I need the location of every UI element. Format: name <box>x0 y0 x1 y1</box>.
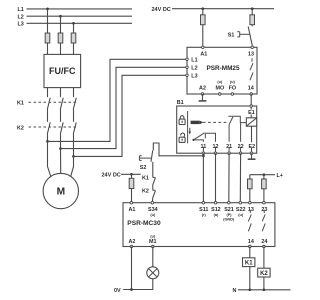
ground at A2 <box>199 94 207 101</box>
ground at E2 <box>248 153 256 159</box>
switch S1 <box>228 27 253 46</box>
wire FU/FC out phase3 <box>73 88 75 98</box>
svg-text:K2: K2 <box>142 189 149 195</box>
wire 24V to fuse F4 <box>202 9 204 15</box>
pin 24 PSR-MC30 <box>263 245 266 248</box>
pin 22 B1 <box>237 142 244 155</box>
mechanical linkage dashed B1 <box>203 121 228 123</box>
svg-text:N: N <box>233 288 237 294</box>
contactor coil K2 <box>258 268 270 277</box>
wire sense phase1 to PSR-MM25 L1 <box>48 59 186 141</box>
svg-text:A1: A1 <box>200 52 207 58</box>
pin 11 B1 <box>200 142 207 155</box>
wire 12 to S12 <box>215 153 217 203</box>
contact K2 aux <box>142 189 156 199</box>
contact K1 aux <box>142 176 156 186</box>
pin A1 PSR-MC30 <box>130 201 133 204</box>
svg-text:(P): (P) <box>226 213 232 217</box>
padlock open icon <box>179 133 185 142</box>
svg-text:12: 12 <box>213 144 219 150</box>
lamp H1 <box>147 267 159 279</box>
pin A2 PSR-MM25 <box>201 93 204 96</box>
svg-text:24V DC: 24V DC <box>102 173 121 179</box>
svg-text:11: 11 <box>201 144 207 150</box>
pin S11 PSR-MC30 <box>202 201 205 204</box>
wire K1 to K2 phase2 <box>60 110 62 122</box>
actuator tongue B1 <box>191 121 204 125</box>
wire 14 to K1 coil <box>249 247 251 258</box>
svg-text:L1: L1 <box>191 57 197 63</box>
wire motor lead phase1 <box>48 141 52 177</box>
drive FU/FC <box>44 54 81 87</box>
svg-text:MO: MO <box>215 86 224 92</box>
wire FU/FC out phase1 <box>47 88 49 98</box>
pin 13 PSR-MC30 <box>249 201 252 204</box>
svg-text:A2: A2 <box>199 86 206 92</box>
pin E2 B1 <box>250 152 253 155</box>
svg-text:(GND): (GND) <box>223 218 235 222</box>
wire S2 to K1 aux <box>152 162 154 178</box>
pin S12 PSR-MC30 <box>214 201 217 204</box>
motor M <box>43 173 78 208</box>
fuse F2 phase2 <box>58 33 63 43</box>
pin L1 PSR-MM25 <box>186 58 189 61</box>
wire sense phase2 to PSR-MM25 L2 <box>61 67 186 148</box>
fuse F8 <box>262 179 267 189</box>
wire K1 to K2 phase1 <box>47 110 49 122</box>
svg-text:FU/FC: FU/FC <box>49 66 76 76</box>
wire 21 to S21 <box>228 153 230 203</box>
wire fuse3 to FU/FC <box>73 43 75 54</box>
actuator down arrow B1 <box>189 128 192 135</box>
svg-text:M: M <box>57 187 66 198</box>
node L1 tap <box>46 8 49 11</box>
wire 14 to E1 <box>250 94 252 106</box>
svg-text:24V DC: 24V DC <box>152 7 171 13</box>
padlock closed icon <box>179 116 185 125</box>
svg-text:(u): (u) <box>230 80 236 84</box>
wire lamp to 0V <box>152 279 154 290</box>
svg-text:L3: L3 <box>18 21 24 27</box>
svg-text:14: 14 <box>248 86 254 92</box>
wire 24 to K2 coil <box>263 247 265 269</box>
svg-text:(u): (u) <box>238 213 244 217</box>
wire 24V to fuse F5 <box>251 9 253 15</box>
svg-text:S2: S2 <box>140 165 147 171</box>
svg-text:L+: L+ <box>277 173 283 179</box>
svg-text:PSR-MC30: PSR-MC30 <box>127 220 161 227</box>
pin 23 PSR-MC30 <box>263 201 266 204</box>
rail 0V <box>114 288 153 294</box>
svg-text:S1: S1 <box>228 33 235 39</box>
node 24V A1 tap <box>201 7 204 10</box>
pin M1 PSR-MC30 <box>152 245 155 248</box>
svg-text:PSR-MM25: PSR-MM25 <box>206 65 239 72</box>
fuse F6 <box>129 178 134 188</box>
contactor coil K1 <box>243 258 255 267</box>
wire motor lead phase3 <box>70 156 73 177</box>
node L2 tap <box>59 15 62 18</box>
rail N <box>233 288 291 294</box>
contact 13-14 inside PSR-MC30 <box>248 210 251 232</box>
wire fuse1 to FU/FC <box>47 43 49 54</box>
svg-text:0V: 0V <box>114 288 121 294</box>
contact 13-14 inside PSR-MM25 <box>250 58 253 80</box>
wire fuse F4 to A1 <box>202 25 204 48</box>
svg-text:K2: K2 <box>17 125 24 131</box>
svg-text:13: 13 <box>248 52 254 58</box>
wire M1 to lamp <box>152 247 154 267</box>
pin S22 PSR-MC30 <box>239 201 242 204</box>
switch S2 emergency stop <box>139 151 152 172</box>
pin 12 B1 <box>212 142 219 155</box>
wire phase3 to fuse <box>73 23 75 33</box>
wire L+ to fuse F8 <box>263 175 265 179</box>
rail L1 <box>18 7 133 13</box>
wire sense phase3 to PSR-MM25 L3 <box>74 75 186 156</box>
wire branch to S2 <box>153 143 203 156</box>
wire K1 to K2 phase3 <box>73 110 75 122</box>
wire 24V lower to fuse F6 <box>131 174 133 178</box>
pin S21 PSR-MC30 <box>228 201 231 204</box>
wire A2 to 0V <box>131 247 133 290</box>
pin 14 PSR-MM25 <box>250 93 253 96</box>
pin MO PSR-MM25 <box>219 93 222 96</box>
wire fuse F6 to A1 PSR-MC30 <box>131 189 133 203</box>
svg-text:22: 22 <box>238 144 244 150</box>
pin A2 PSR-MC30 <box>130 245 133 248</box>
svg-text:B1: B1 <box>177 100 184 106</box>
wire phase1 to motor node <box>47 134 49 141</box>
svg-text:K1: K1 <box>245 261 253 267</box>
pin S34 PSR-MC30 <box>151 201 154 204</box>
wire K1 aux to K2 aux <box>152 185 154 190</box>
wire fuse F8 to pin 23 PSR-MC30 <box>263 189 265 203</box>
wire L+ to fuse F7 <box>249 175 251 179</box>
fuse F3 phase3 <box>71 33 76 43</box>
wire 11 to S11 with S2 branch node <box>202 153 205 203</box>
wire fuse F5 to S1 <box>251 25 253 27</box>
rail L+ <box>250 173 283 179</box>
svg-text:E1: E1 <box>248 110 255 116</box>
wire 22 to S22 <box>239 153 241 203</box>
svg-text:E2: E2 <box>249 144 256 150</box>
node phase1 sense <box>46 140 49 143</box>
svg-text:L1: L1 <box>18 7 24 13</box>
actuator guide line B1 <box>187 111 189 143</box>
coil E1 inside B1 <box>246 108 256 154</box>
svg-text:L3: L3 <box>191 73 197 79</box>
svg-text:FO: FO <box>229 86 237 92</box>
fuse F5 <box>250 15 255 25</box>
svg-text:(u): (u) <box>150 213 156 217</box>
wire phase2 to motor node <box>60 134 62 149</box>
contactor K2 main contacts <box>17 122 76 134</box>
pin 14 PSR-MC30 <box>249 245 252 248</box>
node phase2 sense <box>59 147 62 150</box>
rail L3 <box>18 21 133 27</box>
rail L2 <box>18 14 133 20</box>
safety relay U2 PSR-MC30 <box>123 203 275 247</box>
pin FO PSR-MM25 <box>231 93 234 96</box>
contact 23-24 inside PSR-MC30 <box>262 210 265 232</box>
node L3 tap <box>72 22 75 25</box>
svg-text:K1: K1 <box>142 176 149 182</box>
wire phase1 to fuse <box>47 9 49 33</box>
rail 24V DC top <box>152 7 275 13</box>
svg-text:K2: K2 <box>260 271 268 277</box>
interlock B1 <box>177 100 257 153</box>
pin A1 PSR-MM25 <box>202 46 205 49</box>
wire fuse2 to FU/FC <box>60 43 62 54</box>
contactor K1 main contacts <box>17 98 76 110</box>
contact 21-22 inside B1 <box>228 116 246 153</box>
wire K2 coil to N <box>263 277 265 290</box>
svg-text:L2: L2 <box>191 65 197 71</box>
svg-text:L2: L2 <box>18 14 24 20</box>
pin E1 B1 <box>250 105 253 108</box>
pin L2 PSR-MM25 <box>186 66 189 69</box>
svg-text:21: 21 <box>226 144 232 150</box>
wire motor lead phase2 <box>60 149 62 174</box>
svg-text:(u): (u) <box>217 80 223 84</box>
node phase3 sense <box>72 155 75 158</box>
svg-text:14: 14 <box>248 239 254 245</box>
svg-text:K1: K1 <box>17 101 24 107</box>
svg-text:(a): (a) <box>214 213 219 217</box>
wire fuse F7 to pin 13 PSR-MC30 <box>249 189 251 203</box>
wire phase3 to motor node <box>73 134 75 156</box>
pin L3 PSR-MM25 <box>186 74 189 77</box>
wire K1 coil to N <box>249 267 251 290</box>
wire FU/FC out phase2 <box>60 88 62 98</box>
fuse F7 <box>248 179 253 189</box>
pin 13 PSR-MM25 <box>251 46 254 49</box>
pin 21 B1 <box>226 142 233 155</box>
wire K2 aux to S34 <box>151 198 153 202</box>
rail 24V DC lower <box>102 173 141 179</box>
svg-text:24: 24 <box>261 239 267 245</box>
safety relay U1 PSR-MM25 <box>187 47 257 94</box>
fuse F1 phase1 <box>45 33 50 43</box>
svg-text:(u): (u) <box>150 235 156 239</box>
svg-text:A1: A1 <box>128 207 135 213</box>
wire phase2 to fuse <box>60 16 62 33</box>
svg-text:M1: M1 <box>149 239 157 245</box>
svg-text:13: 13 <box>248 207 254 213</box>
node 24V S1 tap <box>251 7 254 10</box>
contact 11-12 inside B1 <box>192 133 215 153</box>
fuse F4 <box>201 15 206 25</box>
svg-text:A2: A2 <box>128 239 135 245</box>
